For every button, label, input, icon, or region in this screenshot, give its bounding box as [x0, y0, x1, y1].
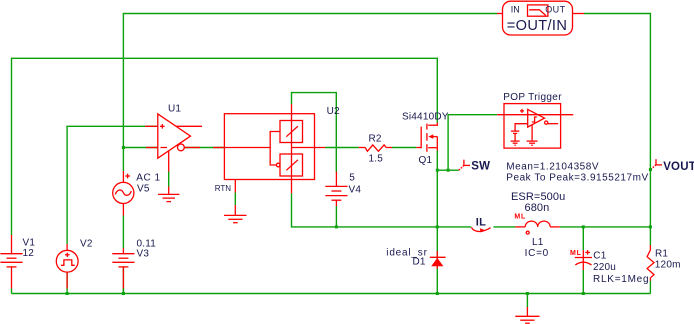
svg-text:OUT: OUT — [545, 4, 565, 14]
svg-text:D1: D1 — [413, 256, 426, 267]
node V2 at ground rail — [66, 292, 69, 295]
node D1 anode at ground rail — [436, 292, 439, 295]
wire D1 to ground rail — [436, 269, 438, 294]
wire SW node stub — [437, 169, 459, 171]
battery V3 — [112, 238, 156, 293]
wire V2 branch to op-amp plus input — [67, 126, 158, 244]
svg-text:Si4410DY: Si4410DY — [402, 112, 449, 123]
node ground symbol at ground rail — [526, 292, 529, 295]
resistor R1 — [647, 245, 681, 281]
wire V2 bottom to ground rail — [66, 273, 68, 294]
svg-text:U2: U2 — [327, 106, 340, 117]
resistor R2 — [359, 133, 392, 164]
ground bottom center — [515, 307, 539, 323]
svg-text:R2: R2 — [369, 133, 382, 144]
svg-text:220u: 220u — [593, 262, 616, 273]
wire C1 top branch — [582, 227, 584, 250]
svg-text:680n: 680n — [525, 202, 550, 214]
svg-text:AC 1: AC 1 — [136, 172, 160, 183]
wire SW to POP trigger — [448, 115, 497, 171]
battery V1 — [0, 235, 35, 289]
AC source V5 — [113, 171, 161, 216]
U2 driver block — [224, 104, 340, 193]
wire op-amp minus input from node — [123, 147, 157, 149]
node C1 top at VOUT rail — [582, 225, 585, 228]
transistor Q1 Si4410DY — [402, 112, 449, 167]
wire V3 bottom to ground rail — [122, 267, 124, 293]
node V3 at ground rail — [122, 292, 125, 295]
probe SW — [459, 160, 491, 173]
svg-text:5: 5 — [349, 172, 355, 183]
wire =OUT/IN output to VOUT vertical — [584, 14, 650, 170]
wire Q1 source to SW node and down to D1 — [436, 151, 438, 269]
wire 12V supply rail V1 to Q1 drain — [12, 58, 438, 235]
node V4 bottom at SW rail — [335, 225, 338, 228]
wire center ground stem — [526, 294, 528, 308]
svg-text:V3: V3 — [137, 249, 150, 260]
svg-text:1.5: 1.5 — [369, 153, 384, 164]
svg-text:IL: IL — [476, 216, 486, 228]
probe bode block =OUT/IN — [497, 1, 584, 35]
svg-text:120m: 120m — [655, 260, 681, 271]
POP Trigger block — [497, 92, 573, 148]
svg-text:U1: U1 — [168, 104, 181, 115]
capacitor C1 — [570, 250, 649, 285]
wire C1 bottom to ground rail — [582, 270, 584, 294]
svg-text:C1: C1 — [593, 250, 606, 261]
wire L1 to VOUT node — [560, 226, 651, 228]
battery V4 — [325, 172, 361, 207]
wire V1 bottom to ground rail — [11, 289, 13, 294]
wire U2 bottom to SW rail — [292, 193, 472, 227]
wire bottom ground rail — [12, 293, 651, 295]
diode D1 ideal_sr — [386, 248, 445, 269]
svg-text:IN: IN — [511, 4, 520, 14]
svg-text:RLK=1Meg: RLK=1Meg — [593, 274, 649, 285]
wire U2 top supply from V4 — [292, 93, 337, 172]
wire op-amp Vminus to ground — [168, 171, 170, 187]
wire R2 to Q1 gate — [392, 147, 416, 149]
node VOUT probe junction — [649, 168, 652, 171]
node D1 cathode at SW rail — [436, 225, 439, 228]
svg-text:=OUT/IN: =OUT/IN — [507, 18, 567, 34]
svg-text:RTN: RTN — [215, 184, 232, 193]
wire top feedback line to =OUT/IN input — [123, 14, 497, 172]
node C1 bottom at ground rail — [582, 292, 585, 295]
node R1 top at VOUT rail — [649, 225, 652, 228]
svg-text:Mean=1.2104358V: Mean=1.2104358V — [506, 161, 599, 172]
op-amp U1 — [145, 104, 224, 172]
svg-text:VOUT: VOUT — [663, 161, 694, 173]
wire V4 bottom — [335, 206, 337, 227]
svg-text:ML: ML — [570, 250, 582, 257]
svg-text:ML: ML — [514, 213, 526, 220]
svg-text:POP Trigger: POP Trigger — [503, 92, 562, 103]
svg-text:V4: V4 — [349, 184, 362, 195]
inductor L1 — [511, 191, 565, 259]
ground op-amp — [158, 187, 179, 202]
svg-text:IC=0: IC=0 — [525, 248, 549, 259]
node SW at POP trigger branch — [447, 169, 450, 172]
U2 RTN pin — [215, 180, 236, 216]
wire op-amp output to U2 — [184, 147, 224, 149]
node feedback junction at op-amp minus input — [122, 146, 125, 149]
node SW at Q1 source — [436, 169, 439, 172]
svg-text:Peak To Peak=3.9155217mV: Peak To Peak=3.9155217mV — [506, 172, 648, 183]
wire R1 bottom to ground rail — [649, 281, 651, 294]
ground RTN — [224, 215, 247, 222]
svg-text:Q1: Q1 — [419, 155, 433, 166]
svg-text:L1: L1 — [532, 237, 544, 248]
svg-text:V2: V2 — [80, 238, 93, 249]
probe IL current arrow — [472, 216, 491, 232]
wire V5 to V3 — [122, 216, 124, 249]
wire VOUT vertical to R1 top — [649, 170, 651, 246]
wire gate line U2 to R2 — [325, 147, 359, 149]
svg-text:V5: V5 — [137, 184, 150, 195]
svg-text:12: 12 — [23, 248, 35, 259]
pulse source V2 — [56, 238, 93, 288]
wire IL probe to L1 — [494, 226, 516, 228]
text mean/peak annotations — [506, 161, 648, 183]
svg-text:R1: R1 — [655, 249, 668, 260]
svg-text:SW: SW — [471, 161, 490, 173]
probe VOUT — [651, 159, 694, 173]
